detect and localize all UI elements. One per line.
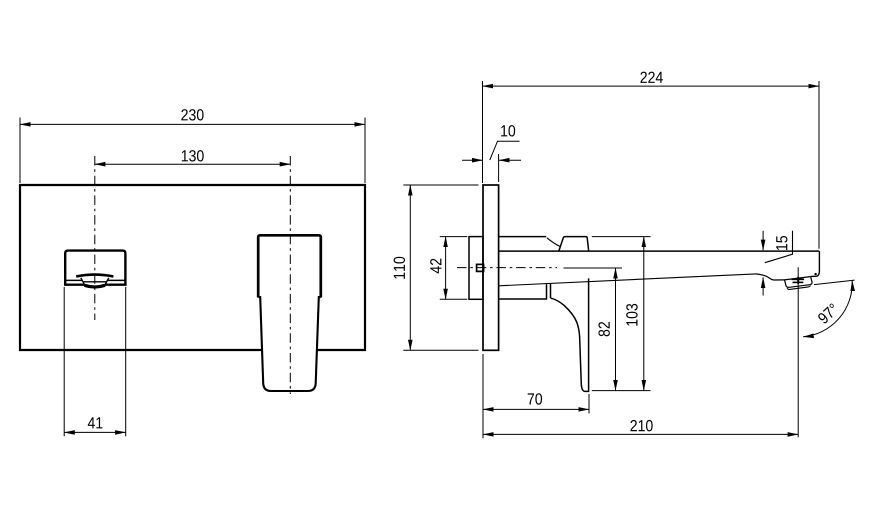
centerline handle (front) bbox=[289, 156, 291, 394]
tip underside S-curve bbox=[756, 274, 785, 280]
in-wall valve body bbox=[469, 237, 483, 300]
dim 42 text bbox=[430, 259, 441, 274]
spout bottom slant line bbox=[499, 274, 756, 286]
wall plate side bbox=[483, 185, 499, 350]
aerator center mark bbox=[792, 278, 805, 280]
dim 70 line bbox=[483, 408, 589, 410]
dim 10 leader bbox=[490, 141, 520, 160]
body top line bbox=[499, 236, 546, 238]
dim 230 line bbox=[20, 123, 365, 125]
dim 110 text bbox=[394, 257, 405, 279]
aerator housing top edge bbox=[784, 277, 810, 280]
dim 82 extension lines bbox=[564, 267, 623, 269]
angle 97 reference line bbox=[814, 280, 855, 285]
dim 130 text bbox=[182, 150, 204, 161]
dim 70 text bbox=[528, 393, 542, 404]
dim 130 line bbox=[95, 163, 290, 165]
tip inner chamfer edge bbox=[765, 231, 793, 263]
dim 210 extension line bbox=[482, 413, 484, 438]
aerator front cup fill (occludes lines behind) bbox=[80, 278, 109, 286]
dim 10 text bbox=[501, 125, 515, 136]
aerator front cup bbox=[81, 278, 109, 286]
lever top (side) bbox=[559, 237, 589, 252]
dim 10 extension line bbox=[498, 154, 500, 182]
centerline spout (front) bbox=[94, 156, 96, 320]
dim 42 line bbox=[445, 237, 447, 300]
horizontal centerline (side) bbox=[457, 267, 557, 269]
dim 103 line bbox=[643, 237, 645, 391]
dim 224 line bbox=[483, 85, 820, 87]
handle front grip bbox=[258, 297, 320, 391]
dim 15 text bbox=[776, 236, 787, 250]
dim 70 extension lines bbox=[482, 354, 484, 413]
dim 110 extension lines bbox=[403, 184, 478, 186]
aerator front bottom arc bbox=[85, 285, 106, 287]
dim 224 extension lines bbox=[482, 81, 484, 183]
dim 224 text bbox=[640, 72, 662, 83]
lever side profile bbox=[551, 278, 589, 391]
dim 42 extension lines bbox=[440, 236, 468, 238]
spout tip front face bbox=[810, 251, 819, 276]
aerator front top arc bbox=[76, 275, 113, 277]
aerator vertical centerline / 210 extension bbox=[797, 267, 799, 437]
dim 10 arrows (outside) bbox=[462, 159, 483, 161]
dim 82 text bbox=[598, 322, 609, 336]
dim 210 text bbox=[630, 420, 652, 431]
angle 97 arc bbox=[803, 281, 852, 337]
body bottom line bbox=[499, 284, 551, 299]
spout front lower edge line bbox=[66, 279, 125, 281]
small square on centerline bbox=[477, 264, 484, 271]
angle 97 text bbox=[817, 303, 839, 325]
dim 230 text bbox=[181, 109, 203, 120]
dim 41 extension lines bbox=[63, 287, 65, 436]
spout top line bbox=[499, 250, 819, 252]
aerator housing (tilted dish) bbox=[785, 277, 813, 288]
dim 103 extension line top bbox=[592, 236, 651, 238]
spout front body bbox=[65, 251, 125, 285]
aerator housing bottom line bbox=[787, 286, 810, 290]
dim 210 line bbox=[483, 433, 798, 435]
tip corner dot bbox=[814, 273, 816, 275]
wall plate front (bottom edge hidden behind handle) bbox=[20, 185, 365, 350]
body/lever gap arc bbox=[547, 238, 560, 247]
dim 110 line bbox=[409, 185, 411, 350]
dim 103 text bbox=[626, 304, 637, 326]
dim 41 text bbox=[88, 417, 103, 428]
dim 41 line bbox=[64, 431, 126, 433]
handle front cap (thick upper part) bbox=[258, 235, 321, 297]
dim 230 extension lines bbox=[19, 118, 21, 184]
dim 82 line bbox=[615, 268, 617, 391]
dim 15 arrows bbox=[762, 231, 764, 250]
